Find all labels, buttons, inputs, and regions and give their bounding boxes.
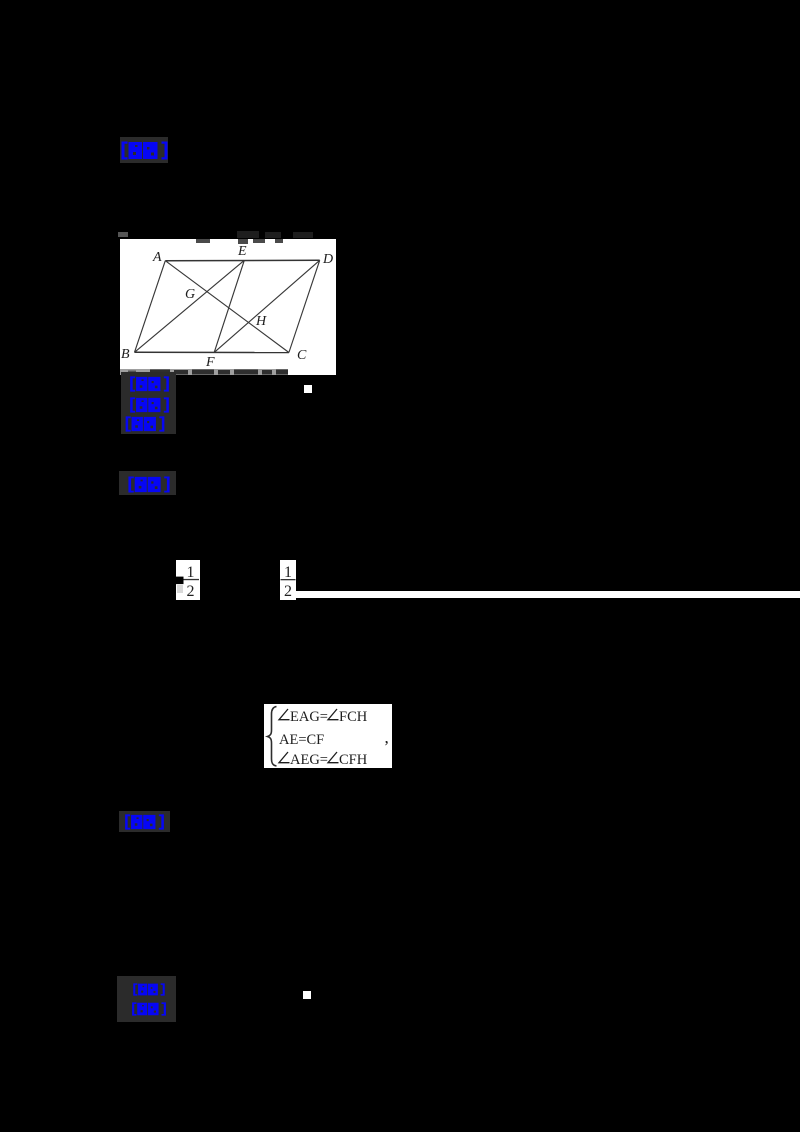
svg-text:D: D <box>322 252 333 267</box>
svg-text:F: F <box>205 355 215 370</box>
angle symbol line3 a <box>279 752 290 763</box>
blue label (bottom row 2) <box>126 1002 172 1016</box>
blue label 1 <box>121 141 168 160</box>
dark mark overlapping left edge <box>176 576 184 584</box>
cut-off text remnants at top of image <box>196 239 283 244</box>
svg-text:2: 2 <box>284 583 292 600</box>
diagonal AC <box>165 261 289 353</box>
svg-text:1: 1 <box>284 564 292 581</box>
gray box behind bottom two labels <box>117 976 176 1022</box>
svg-text:B: B <box>121 347 130 362</box>
svg-text:A: A <box>152 250 162 265</box>
blue label (bottom row 1) <box>126 983 172 996</box>
gray box behind analysis label <box>119 471 176 495</box>
svg-text:E: E <box>237 244 247 259</box>
line BE <box>135 260 245 352</box>
svg-text:2: 2 <box>187 583 195 600</box>
angle symbol line1 b <box>328 709 339 720</box>
gray box behind 3 labels <box>121 372 176 434</box>
line EF <box>214 260 244 352</box>
geometry figure image (white box) <box>120 239 336 375</box>
angle symbol line3 b <box>328 752 339 763</box>
side AB <box>135 261 166 353</box>
svg-text:,: , <box>385 728 389 747</box>
white dot near answer labels <box>304 385 312 393</box>
svg-text:AE=CF: AE=CF <box>279 732 324 748</box>
svg-text:G: G <box>185 287 195 302</box>
svg-text:C: C <box>297 348 307 363</box>
svg-text:CFH: CFH <box>339 752 368 768</box>
vertex labels <box>121 244 333 370</box>
blue label (proof) <box>121 814 168 830</box>
svg-text:FCH: FCH <box>339 709 368 725</box>
blue label (analysis) <box>126 476 172 493</box>
blue label (row 2) <box>126 397 173 413</box>
equation system image (white box) <box>264 704 392 768</box>
white dot near bottom labels <box>303 991 311 999</box>
svg-text:EAG=: EAG= <box>290 709 328 725</box>
gray box behind proof label <box>119 811 170 832</box>
faint remnant marks above figure <box>115 230 335 240</box>
blue label (row 3) <box>123 416 167 432</box>
angle symbol line1 a <box>279 709 290 720</box>
line DF <box>214 260 320 352</box>
white strip to right edge <box>296 591 800 599</box>
label box (answer header) gray background <box>120 137 168 163</box>
svg-text:AEG=: AEG= <box>290 752 328 768</box>
fraction 1/2 (second) white box <box>280 560 296 601</box>
big left brace <box>268 707 277 767</box>
svg-text:H: H <box>255 314 267 329</box>
side BC <box>135 351 289 353</box>
side AD <box>165 259 319 261</box>
side DC <box>289 260 320 352</box>
fraction 1/2 (first) white box <box>176 560 200 600</box>
svg-text:1: 1 <box>187 564 195 581</box>
blue label (row 1) <box>126 376 173 392</box>
bottom cut-off band <box>120 369 288 375</box>
